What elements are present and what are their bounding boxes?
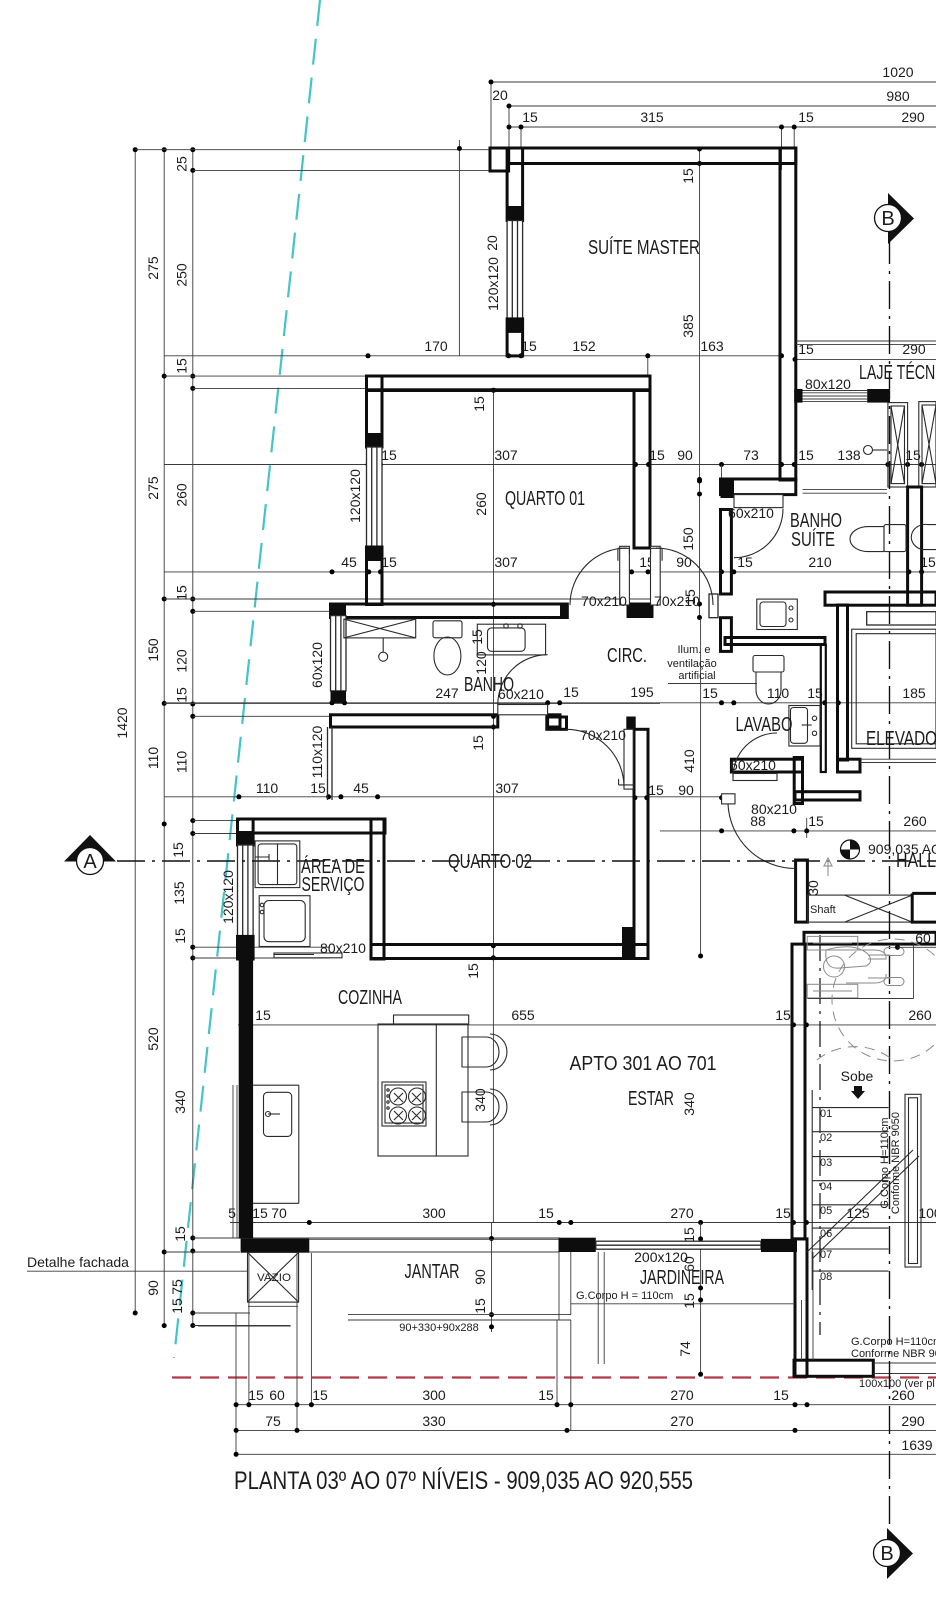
- svg-text:75: 75: [265, 1413, 281, 1429]
- cozinha island: [378, 1015, 469, 1156]
- left dim chain 1420: [134, 150, 136, 1313]
- svg-text:135: 135: [171, 881, 187, 905]
- svg-text:15: 15: [381, 554, 397, 570]
- jardineira left thin wall lines: [571, 1252, 795, 1364]
- wall suite master top: [509, 148, 796, 164]
- wall laje tecnica band with 80x120 window: [803, 391, 868, 402]
- wall area servico right: [371, 819, 384, 959]
- svg-text:45: 45: [341, 554, 357, 570]
- svg-text:08: 08: [820, 1271, 832, 1283]
- svg-text:15: 15: [681, 1293, 697, 1309]
- red dashed boundary line: [172, 1376, 936, 1378]
- svg-text:QUARTO 01: QUARTO 01: [505, 488, 585, 510]
- svg-text:250: 250: [174, 263, 190, 287]
- hall bay lines: [807, 944, 913, 998]
- wall lavabo bottom: [731, 759, 802, 772]
- svg-text:45: 45: [353, 780, 369, 796]
- svg-text:260: 260: [908, 1007, 932, 1023]
- shaft box with X: [807, 895, 912, 922]
- svg-text:300: 300: [422, 1205, 446, 1221]
- svg-text:80x120: 80x120: [805, 376, 851, 392]
- door area servico leaf (80x210): [274, 953, 342, 958]
- svg-text:330: 330: [422, 1413, 446, 1429]
- wall quarto01 left stub upper: [367, 376, 383, 447]
- dim row 980: [509, 106, 936, 148]
- svg-text:SUÍTE: SUÍTE: [791, 528, 835, 551]
- svg-text:1420: 1420: [114, 707, 130, 738]
- svg-text:75: 75: [169, 1279, 185, 1295]
- svg-text:80x210: 80x210: [320, 940, 366, 956]
- left dim chain 275/275/150/110/520/90: [163, 150, 165, 1326]
- svg-text:290: 290: [902, 341, 926, 357]
- svg-text:70: 70: [271, 1205, 287, 1221]
- svg-text:15: 15: [798, 341, 814, 357]
- svg-text:340: 340: [472, 1088, 488, 1112]
- door quarto01 leaf+arc: [570, 546, 629, 605]
- svg-text:30: 30: [805, 880, 821, 896]
- svg-text:152: 152: [572, 338, 596, 354]
- wall end cap circ: [627, 603, 654, 619]
- svg-text:15: 15: [465, 963, 481, 979]
- svg-text:15: 15: [808, 813, 824, 829]
- wall hall bottom-right band: [795, 792, 860, 800]
- svg-text:G.Corpo H = 110cm: G.Corpo H = 110cm: [576, 1290, 673, 1302]
- svg-text:03: 03: [820, 1157, 832, 1169]
- svg-text:15: 15: [381, 447, 397, 463]
- svg-text:15: 15: [471, 396, 487, 412]
- svg-text:15: 15: [174, 358, 190, 374]
- banho suite key symbol: [864, 446, 888, 455]
- svg-text:Ilum. e: Ilum. e: [677, 644, 710, 656]
- svg-text:15: 15: [522, 109, 538, 125]
- axis line x=820 vertical: [819, 935, 821, 1335]
- svg-text:200x120: 200x120: [634, 1249, 688, 1265]
- svg-text:110: 110: [145, 747, 161, 770]
- wall vanity bottom band: [725, 638, 825, 645]
- svg-text:JARDINEIRA: JARDINEIRA: [640, 1267, 724, 1289]
- svg-text:07: 07: [820, 1249, 832, 1261]
- svg-text:120x120: 120x120: [347, 469, 363, 523]
- svg-text:15: 15: [312, 1387, 328, 1403]
- shaft hatched box 2: [919, 402, 936, 487]
- banho suite bidet partial: [911, 524, 936, 549]
- detalhe fachada leader: [27, 1270, 248, 1272]
- dim row bottom 15/60/15/300/15/270/15/260 y=1404.7: [236, 1253, 936, 1455]
- level marker symbol: [841, 840, 860, 859]
- wall shaft right block: [912, 893, 936, 922]
- svg-text:315: 315: [640, 109, 664, 125]
- svg-text:120x120: 120x120: [220, 870, 236, 924]
- wall suite left window stub lower: [507, 319, 522, 356]
- svg-text:15: 15: [773, 1387, 789, 1403]
- svg-text:90: 90: [145, 1280, 161, 1296]
- svg-text:LAJE TÉCNICA: LAJE TÉCNICA: [859, 361, 936, 384]
- svg-text:1639: 1639: [901, 1437, 932, 1453]
- jantar vertical dim 90/15: [491, 1223, 493, 1333]
- section B marker top: [875, 193, 915, 244]
- svg-text:VAZIO: VAZIO: [257, 1272, 291, 1284]
- stairs treads: [812, 1090, 888, 1290]
- wall elevator left: [838, 605, 848, 760]
- svg-text:120: 120: [473, 651, 489, 675]
- svg-text:15: 15: [538, 1387, 554, 1403]
- jantar floor edge lines: [348, 1252, 571, 1320]
- svg-text:B: B: [880, 1543, 893, 1565]
- dim row quarto02 top 110/15/45/307/15/90 y=796.8: [164, 796, 724, 798]
- area servico tank: [255, 841, 300, 888]
- window 110x120 below banho: [328, 727, 333, 800]
- wall cozinha left solid: [239, 957, 253, 1239]
- wall suite right: [780, 148, 796, 480]
- window 200x120 jardineira: [596, 1241, 761, 1249]
- banho suite vanity: [757, 599, 798, 629]
- svg-text:15: 15: [172, 1226, 188, 1242]
- svg-text:120x120: 120x120: [485, 257, 501, 311]
- turning circles dashed: [817, 939, 936, 1061]
- door leaf banho suite left wall: [709, 594, 718, 618]
- svg-text:90: 90: [678, 782, 694, 798]
- wall elevator bottom-left: [838, 759, 861, 772]
- laje tecnica dim 15/290 y=359: [795, 345, 936, 372]
- wall banho bottom band: [331, 715, 498, 727]
- wall quarto02 bottom: [371, 945, 648, 959]
- svg-text:15: 15: [681, 1227, 697, 1243]
- wall stair hall top: [804, 932, 936, 944]
- wall banho left stub upper: [331, 604, 347, 616]
- area servico washer: [259, 896, 314, 955]
- svg-text:15: 15: [248, 1387, 264, 1403]
- svg-text:Shaft: Shaft: [810, 904, 836, 916]
- svg-text:15: 15: [798, 109, 814, 125]
- lavabo sink: [789, 706, 820, 747]
- dim row jantar top 5/15/70/300/15/270/15/125/100 y=1222.5: [230, 1222, 936, 1224]
- banho counter sink: [477, 624, 545, 655]
- svg-text:307: 307: [494, 447, 518, 463]
- svg-text:275: 275: [145, 256, 161, 280]
- wall estar right: [792, 944, 805, 1239]
- section B line vertical: [889, 236, 891, 1536]
- svg-text:270: 270: [670, 1387, 694, 1403]
- banho toilet: [433, 621, 462, 675]
- door banho leaf+arc (60x210): [498, 655, 548, 715]
- svg-text:15: 15: [563, 684, 579, 700]
- svg-text:01: 01: [820, 1108, 832, 1120]
- dim row 1020: [491, 82, 936, 148]
- dim row cozinha/estar 15/655/15/260 y=1025: [238, 945, 936, 1222]
- svg-text:270: 270: [670, 1413, 694, 1429]
- elevator cab: [852, 629, 936, 748]
- wall jog piece banho SE: [547, 717, 567, 729]
- svg-text:02: 02: [820, 1132, 832, 1144]
- wall jantar-jardineira stub solid: [559, 1238, 596, 1252]
- lavabo vertical dim 410: [700, 618, 702, 957]
- svg-text:163: 163: [700, 338, 724, 354]
- svg-text:60x120: 60x120: [309, 642, 325, 688]
- svg-text:15: 15: [538, 1205, 554, 1221]
- suite vertical ext line: [458, 140, 460, 356]
- svg-text:260: 260: [174, 483, 190, 507]
- svg-text:Conforme NBR 9050: Conforme NBR 9050: [890, 1112, 902, 1214]
- wall piece suite lower (y479-494): [721, 479, 796, 495]
- banho lamp: [379, 638, 388, 661]
- svg-text:15: 15: [174, 585, 190, 601]
- wheelchair symbol: [807, 936, 904, 997]
- door jambs circ top: [618, 548, 662, 561]
- cyan facade reference dashed line: [174, 0, 320, 1358]
- svg-text:110: 110: [256, 780, 279, 796]
- svg-text:HALL: HALL: [896, 850, 936, 872]
- svg-text:60: 60: [269, 1387, 285, 1403]
- elevator sill: [867, 612, 936, 625]
- furniture banho: closet X: [344, 619, 416, 638]
- svg-text:15: 15: [648, 782, 664, 798]
- dim row 15/315/15/290: [509, 127, 936, 170]
- svg-text:980: 980: [886, 88, 910, 104]
- svg-text:15: 15: [172, 928, 188, 944]
- wall banho top band / quarto01 bottom: [331, 604, 564, 618]
- svg-text:210: 210: [808, 554, 832, 570]
- circ vertical 150 helper dots: [697, 479, 702, 484]
- svg-text:15: 15: [470, 735, 486, 751]
- svg-text:185: 185: [902, 685, 926, 701]
- svg-text:20: 20: [492, 87, 508, 103]
- svg-text:Detalhe fachada: Detalhe fachada: [27, 1254, 129, 1270]
- svg-text:artificial: artificial: [678, 670, 715, 682]
- wall cozinha bottom corner solid: [241, 1239, 310, 1253]
- door apt entry arc (80x210): [722, 794, 796, 869]
- jardineira vertical dim 15/60/15/74: [700, 1223, 702, 1377]
- door circ south leaf+arc: [651, 546, 714, 605]
- wall quarto02 left stub upper: [238, 819, 254, 845]
- dim row 75/330/270/290 y=1430.4: [236, 1429, 936, 1431]
- svg-text:300: 300: [422, 1387, 446, 1403]
- vazio box with X: [248, 1252, 299, 1302]
- dim row suite bottom 170/15/152/163 y=356: [164, 356, 781, 376]
- wall shaft left: [796, 860, 808, 922]
- wall lavabo right: [821, 645, 826, 773]
- banho suite toilet: [850, 525, 906, 552]
- jardineira right inner lines: [802, 1252, 814, 1360]
- svg-text:275: 275: [145, 476, 161, 500]
- window sill caps area servico: [238, 831, 254, 845]
- svg-text:15: 15: [255, 1007, 271, 1023]
- svg-text:15: 15: [472, 1298, 488, 1314]
- svg-text:SUÍTE MASTER: SUÍTE MASTER: [588, 236, 700, 259]
- svg-text:B: B: [881, 208, 894, 230]
- svg-text:110: 110: [174, 751, 190, 774]
- svg-text:60: 60: [915, 930, 931, 946]
- section B marker bottom: [874, 1528, 914, 1579]
- svg-text:70x210: 70x210: [581, 593, 627, 609]
- svg-text:LAVABO: LAVABO: [736, 714, 793, 736]
- wall jardineira right stub solid: [761, 1239, 797, 1252]
- wall end cap banho top: [560, 603, 569, 620]
- svg-text:60x210: 60x210: [730, 757, 776, 773]
- svg-text:90: 90: [472, 1269, 488, 1285]
- svg-text:15: 15: [775, 1007, 791, 1023]
- svg-text:A: A: [83, 851, 97, 873]
- wall hook top-left corner: [490, 148, 509, 171]
- wall hall bottom band over area servico: [238, 819, 386, 833]
- svg-text:138: 138: [837, 447, 861, 463]
- window 120x120 area servico: [238, 845, 254, 936]
- facade thin lines left of cozinha: [198, 1085, 298, 1326]
- laje tecnica bottom slab lines: [803, 489, 888, 493]
- svg-text:G.Corpo H=110cm: G.Corpo H=110cm: [851, 1336, 936, 1348]
- svg-text:520: 520: [145, 1027, 161, 1051]
- svg-text:ventilação: ventilação: [667, 658, 717, 670]
- dim row 1639 y=1454.3: [236, 1453, 936, 1455]
- svg-text:74: 74: [677, 1341, 693, 1357]
- svg-text:Conforme NBR 9050: Conforme NBR 9050: [851, 1348, 936, 1360]
- svg-text:110x120: 110x120: [309, 725, 325, 778]
- svg-text:60x210: 60x210: [728, 505, 774, 521]
- window 120x120 quarto01: [367, 447, 383, 547]
- stair handrail: [905, 1094, 921, 1267]
- lavabo toilet: [753, 656, 784, 705]
- wall banho suite left: [721, 510, 732, 595]
- svg-text:15: 15: [798, 447, 814, 463]
- wall quarto01 left stub lower: [367, 547, 383, 605]
- svg-text:PLANTA 03º AO 07º NÍVEIS - 909: PLANTA 03º AO 07º NÍVEIS - 909,035 AO 92…: [234, 1466, 693, 1495]
- dim row quarto01 bottom 45/15/307/15/90/15/210/15 y=571.9: [164, 571, 936, 573]
- svg-text:150: 150: [680, 527, 696, 551]
- left dim chain inner 25/250/15/260/15/120/15/110/15/135/15/340/75/15: [192, 150, 194, 1326]
- svg-text:73: 73: [743, 447, 759, 463]
- svg-text:APTO 301 AO 701: APTO 301 AO 701: [570, 1053, 717, 1075]
- svg-text:195: 195: [630, 684, 654, 700]
- suite vertical dim line 15/385: [699, 149, 701, 618]
- door lavabo leaf+arc (60x210): [733, 733, 777, 781]
- laje tecnica top slab lines: [796, 341, 936, 345]
- axis A marker: [64, 835, 116, 875]
- svg-text:270: 270: [670, 1205, 694, 1221]
- stair cut diagonal: [807, 1150, 919, 1258]
- wall jardineira bottom: [794, 1360, 873, 1376]
- window 60x120 banho: [331, 616, 347, 691]
- svg-text:15: 15: [649, 447, 665, 463]
- left chain extension lines: [135, 150, 660, 1326]
- cozinha counter left: [253, 1085, 299, 1203]
- wall jardineira right: [795, 1239, 807, 1376]
- stove 4 burners: [382, 1082, 426, 1126]
- shaft hatched box 1: [888, 403, 908, 487]
- window 120x120 suite master: [507, 221, 522, 319]
- svg-text:70x210: 70x210: [580, 727, 626, 743]
- pilaster quarto02 SE: [622, 927, 635, 958]
- svg-text:260: 260: [473, 492, 489, 516]
- svg-text:90: 90: [677, 447, 693, 463]
- wall banho suite bottom: [825, 592, 936, 605]
- svg-text:247: 247: [435, 685, 459, 701]
- svg-text:15: 15: [170, 842, 186, 858]
- svg-text:307: 307: [495, 780, 519, 796]
- svg-text:340: 340: [681, 1092, 697, 1116]
- svg-text:20: 20: [484, 235, 500, 251]
- svg-text:05: 05: [820, 1205, 832, 1217]
- svg-text:ESTAR: ESTAR: [628, 1088, 674, 1110]
- wall hall right vertical: [794, 758, 802, 804]
- svg-text:385: 385: [680, 314, 696, 338]
- window sill caps suite: [507, 206, 522, 221]
- svg-text:15: 15: [310, 780, 326, 796]
- svg-text:1020: 1020: [882, 64, 913, 80]
- svg-text:JANTAR: JANTAR: [405, 1261, 460, 1283]
- svg-text:410: 410: [681, 749, 697, 773]
- svg-text:100x100 (ver pl: 100x100 (ver pl: [859, 1378, 935, 1390]
- wall banho suite right vertical: [908, 487, 922, 605]
- svg-text:260: 260: [903, 813, 927, 829]
- wall banho left stub lower: [331, 691, 347, 703]
- dim row quarto01 top 15/307/15/90/73/15/138/15 y=464.5: [164, 464, 936, 466]
- svg-text:307: 307: [494, 554, 518, 570]
- wall quarto01 top band: [367, 376, 651, 391]
- dim row banho bottom 247/60x210/15/195/15/110/15/185 y=702.8: [164, 702, 936, 704]
- door quarto02 leaf+arc (70x210): [566, 729, 634, 789]
- svg-text:120: 120: [174, 649, 190, 673]
- svg-text:04: 04: [820, 1181, 832, 1193]
- svg-text:80x210: 80x210: [751, 801, 797, 817]
- svg-text:70x210: 70x210: [654, 593, 700, 609]
- svg-text:90+330+90x288: 90+330+90x288: [399, 1322, 479, 1334]
- svg-text:SERVIÇO: SERVIÇO: [302, 874, 365, 896]
- svg-text:15: 15: [702, 685, 718, 701]
- door jamb wall piece left: [721, 479, 735, 498]
- svg-text:CIRC.: CIRC.: [607, 645, 647, 667]
- svg-text:90: 90: [676, 554, 692, 570]
- svg-text:15: 15: [775, 1205, 791, 1221]
- svg-text:170: 170: [424, 338, 448, 354]
- quarto01 vertical dim 260: [493, 390, 495, 944]
- svg-text:15: 15: [174, 687, 190, 703]
- wall suite left window stub upper: [507, 148, 522, 221]
- wall circ vertical (quarto01 right): [634, 391, 650, 549]
- door banho suite leaf+arc (60x210): [734, 495, 783, 558]
- axis A dash-dot line: [117, 860, 936, 862]
- chairs right of island: [462, 1034, 507, 1125]
- dim row entry 88/15/260 y=830.9: [660, 818, 936, 838]
- wall laje step: [794, 389, 802, 403]
- svg-text:15: 15: [252, 1205, 268, 1221]
- svg-text:COZINHA: COZINHA: [338, 987, 402, 1009]
- svg-text:ELEVADOR: ELEVADOR: [866, 728, 936, 750]
- svg-text:5: 5: [228, 1205, 236, 1221]
- wall quarto02 left stub lower: [238, 936, 254, 959]
- svg-text:150: 150: [145, 638, 161, 662]
- svg-text:Sobe: Sobe: [841, 1068, 874, 1084]
- jantar top boundary lines: [309, 1239, 558, 1252]
- svg-text:340: 340: [172, 1090, 188, 1114]
- svg-text:25: 25: [174, 156, 190, 172]
- svg-text:290: 290: [901, 109, 925, 125]
- svg-text:15: 15: [680, 168, 696, 184]
- door jamb quarto02: [626, 717, 635, 730]
- svg-text:15: 15: [169, 1298, 185, 1314]
- svg-text:BANHO: BANHO: [464, 674, 514, 696]
- svg-text:QUARTO 02: QUARTO 02: [448, 851, 532, 873]
- wall quarto02 right: [634, 729, 648, 958]
- svg-text:290: 290: [901, 1413, 925, 1429]
- window sill caps quarto01: [367, 433, 383, 447]
- svg-text:655: 655: [511, 1007, 535, 1023]
- stair numbers: [820, 1108, 832, 1283]
